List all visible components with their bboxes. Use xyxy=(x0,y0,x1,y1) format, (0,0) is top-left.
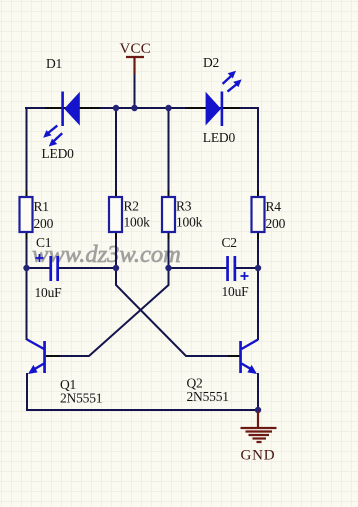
node: junction R4 / C2 / Q2 collector xyxy=(255,265,261,271)
wire: C1 right xyxy=(58,267,116,269)
wire: right rail upper (top rail to R4) xyxy=(257,107,259,198)
wire: C2 right xyxy=(235,267,258,269)
wire: top power rail xyxy=(25,107,259,109)
svg-text:www.dz3w.com: www.dz3w.com xyxy=(32,241,181,268)
svg-text:100k: 100k xyxy=(124,215,151,230)
wire: VCC stub xyxy=(134,72,136,109)
svg-text:D1: D1 xyxy=(46,56,62,71)
node: junction bottom rail / GND xyxy=(255,407,261,413)
wire: cross coupling R3/C2 node to Q1 base xyxy=(46,268,169,356)
LED D2 xyxy=(185,71,242,126)
svg-text:R3: R3 xyxy=(176,199,192,214)
capacitor C1 xyxy=(36,254,60,281)
resistor R2 xyxy=(109,190,122,239)
svg-text:LED0: LED0 xyxy=(42,146,75,161)
LED D1 xyxy=(43,92,100,147)
node: junction R1 / C1 xyxy=(23,265,29,271)
node: junction R3 / C2 / cross wire xyxy=(165,265,171,271)
resistor R4 xyxy=(252,190,265,239)
svg-text:C2: C2 xyxy=(222,235,237,250)
resistor R1 xyxy=(20,190,33,239)
svg-text:2N5551: 2N5551 xyxy=(187,389,229,404)
svg-text:2N5551: 2N5551 xyxy=(60,391,102,406)
wire: left rail upper (top rail to R1) xyxy=(26,107,28,198)
resistor R3 xyxy=(162,190,175,239)
wire: C2 left xyxy=(169,267,228,269)
svg-text:R2: R2 xyxy=(124,199,139,214)
svg-text:200: 200 xyxy=(34,216,54,231)
svg-text:100k: 100k xyxy=(176,215,203,230)
svg-text:D2: D2 xyxy=(203,55,219,70)
wire: right rail lower (R4 to Q2 collector) xyxy=(257,230,259,340)
svg-text:10uF: 10uF xyxy=(35,285,63,300)
wire: left rail lower (R1 to Q1 collector) xyxy=(26,230,28,340)
power port VCC xyxy=(126,57,144,74)
svg-text:VCC: VCC xyxy=(120,41,151,57)
wire: Q1 emitter to bottom rail xyxy=(26,373,28,411)
wire: cross coupling R2/C1 node to Q2 base xyxy=(116,268,240,356)
wire: R3 top stub xyxy=(168,108,170,198)
svg-text:C1: C1 xyxy=(36,235,51,250)
svg-text:10uF: 10uF xyxy=(222,284,250,299)
svg-text:R1: R1 xyxy=(34,199,49,214)
node: junction top rail / VCC xyxy=(131,105,137,111)
node: junction top rail / R3 xyxy=(165,105,171,111)
wire: R2 bottom stub xyxy=(115,230,117,269)
svg-text:R4: R4 xyxy=(266,199,282,214)
capacitor C2 xyxy=(226,256,248,281)
svg-text:LED0: LED0 xyxy=(203,130,236,145)
transistor Q1 xyxy=(27,340,60,375)
svg-text:GND: GND xyxy=(241,448,276,464)
wire: Q2 emitter to bottom rail xyxy=(257,373,259,411)
ground GND xyxy=(241,411,277,442)
node: junction top rail / R2 xyxy=(113,105,119,111)
wire: R3 bottom stub xyxy=(168,230,170,269)
wire: R2 top stub xyxy=(115,108,117,198)
wire: bottom rail xyxy=(26,409,258,411)
svg-text:200: 200 xyxy=(266,216,286,231)
node: junction R2 / C1 / cross wire xyxy=(113,265,119,271)
transistor Q2 xyxy=(228,340,258,375)
wire: C1 left xyxy=(26,267,51,269)
